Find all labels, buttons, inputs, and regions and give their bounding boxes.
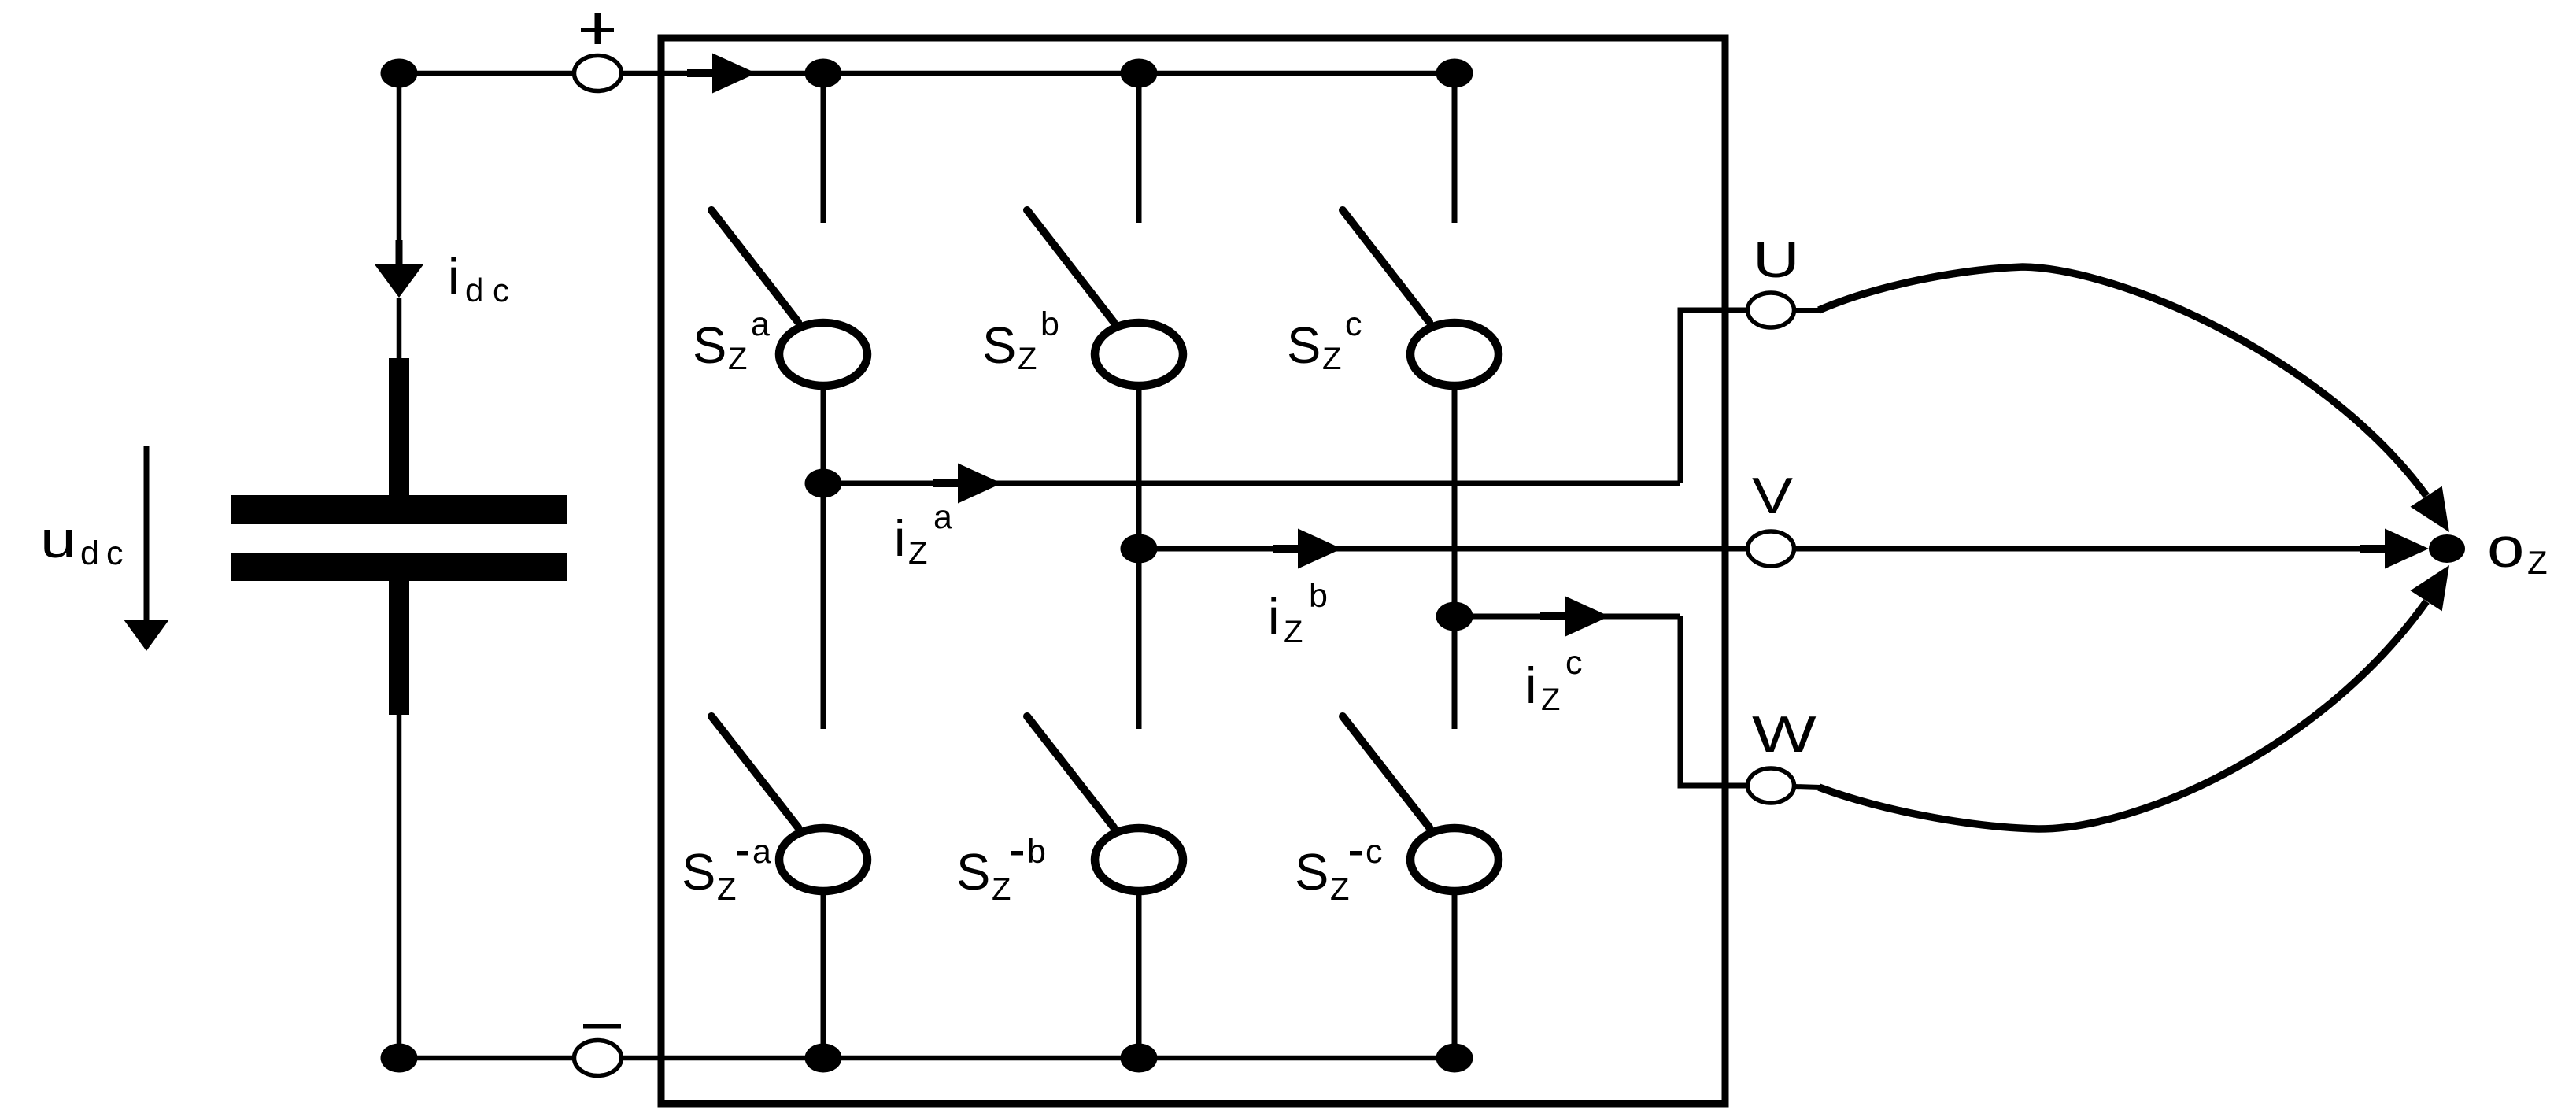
switch S_Z^-c lever <box>1343 716 1429 827</box>
svg-text:c: c <box>1565 644 1583 682</box>
svg-text:S: S <box>693 316 726 374</box>
arrowhead W curve <box>2411 565 2450 611</box>
arrow on top rail <box>687 69 717 77</box>
svg-text:Z: Z <box>728 342 747 376</box>
wire: capacitor to bottom rail <box>397 712 402 1058</box>
svg-text:S: S <box>682 843 715 901</box>
arrow u_dc direction <box>144 446 150 622</box>
svg-text:c: c <box>106 534 124 572</box>
svg-text:i: i <box>1268 588 1279 645</box>
svg-text:Z: Z <box>1330 872 1349 907</box>
wire: phase a top stub <box>821 73 826 223</box>
wire: arrow to capacitor <box>397 298 402 361</box>
wire: phase a middle column <box>821 386 826 729</box>
svg-text:i: i <box>448 248 459 305</box>
terminal W <box>1748 768 1794 803</box>
svg-text:Z: Z <box>1018 342 1037 376</box>
phase a top node <box>805 59 842 88</box>
terminal U <box>1748 293 1794 327</box>
svg-text:V: V <box>1752 468 1793 524</box>
arrow i_Z^c <box>1540 612 1570 620</box>
phase c bottom node <box>1436 1044 1473 1073</box>
svg-text:Z: Z <box>992 872 1011 907</box>
inverter box outline <box>661 38 1725 1104</box>
phase a bottom node <box>805 1044 842 1073</box>
svg-text:U: U <box>1753 231 1800 288</box>
arrowhead U curve <box>2411 486 2450 532</box>
switch S_Z^c lever <box>1343 210 1429 322</box>
switch S_Z^-c contact <box>1410 828 1499 891</box>
arrow i_Z^a <box>933 479 963 487</box>
wire: phase c bottom stub <box>1452 891 1458 1058</box>
svg-text:b: b <box>1027 833 1046 871</box>
switch S_Z^a lever <box>711 210 798 322</box>
node: DC+ left junction <box>381 59 418 88</box>
wire: V load line <box>1794 546 2377 552</box>
switch S_Z^-b contact <box>1095 828 1183 891</box>
svg-text:i: i <box>1525 657 1536 714</box>
terminal V <box>1748 531 1794 566</box>
svg-text:S: S <box>982 316 1016 374</box>
wire: phase b to V terminal <box>1139 546 1748 552</box>
arrow i_dc <box>396 240 403 267</box>
wire: phase b middle column <box>1136 386 1142 729</box>
switch S_Z^b contact <box>1095 323 1183 386</box>
svg-text:c: c <box>1345 305 1362 343</box>
wire: top DC+ rail <box>399 71 1454 76</box>
svg-text:c: c <box>493 272 509 309</box>
node o_Z <box>2429 534 2465 563</box>
svg-text:S: S <box>1287 316 1321 374</box>
node: phase b output junction <box>1121 534 1158 564</box>
phase c top node <box>1436 59 1473 88</box>
wire: phase c middle column <box>1452 386 1458 729</box>
wire: left branch top <box>397 73 402 244</box>
switch S_Z^b lever <box>1027 210 1114 322</box>
arrow i_Z^b <box>1273 545 1303 553</box>
node: DC- left junction <box>381 1044 418 1073</box>
terminal - (open circle) <box>575 1041 622 1076</box>
node: phase c output junction <box>1436 602 1473 631</box>
capacitor C_dc bottom plate <box>231 553 567 581</box>
terminal + (open circle) <box>575 56 622 91</box>
capacitor C_dc top plate <box>231 495 567 524</box>
phase b bottom node <box>1121 1044 1158 1073</box>
svg-text:S: S <box>956 843 990 901</box>
svg-text:Z: Z <box>1284 615 1303 649</box>
svg-text:i: i <box>894 509 905 567</box>
svg-text:o: o <box>2487 516 2524 579</box>
label - <box>583 1024 621 1029</box>
wire: bottom DC- rail <box>399 1056 1454 1061</box>
capacitor C_dc bottom lead <box>389 581 409 715</box>
arrow V line <box>2360 545 2389 553</box>
wire: phase c top stub <box>1452 73 1458 223</box>
svg-text:Z: Z <box>908 536 927 571</box>
svg-text:Z: Z <box>2527 544 2548 581</box>
capacitor C_dc top lead <box>389 358 409 497</box>
label + <box>581 28 614 33</box>
node: phase a output junction <box>805 469 842 498</box>
svg-text:a: a <box>751 305 770 343</box>
svg-text:Z: Z <box>1541 682 1560 717</box>
wire: phase c to W terminal <box>1454 614 1680 620</box>
svg-text:a: a <box>752 833 771 871</box>
switch S_Z^a contact <box>779 323 867 386</box>
phase b top node <box>1121 59 1158 88</box>
svg-text:d: d <box>80 534 99 572</box>
svg-text:c: c <box>1366 833 1383 871</box>
svg-text:b: b <box>1309 577 1328 615</box>
switch S_Z^c contact <box>1410 323 1499 386</box>
svg-text:u: u <box>40 510 76 568</box>
switch S_Z^-a contact <box>779 828 867 891</box>
svg-text:a: a <box>933 498 952 536</box>
wire: U load curve <box>1794 308 1820 313</box>
switch S_Z^-a lever <box>711 716 798 827</box>
svg-text:S: S <box>1295 843 1329 901</box>
switch S_Z^-b lever <box>1027 716 1114 827</box>
svg-text:W: W <box>1752 706 1817 763</box>
wire: phase a bottom stub <box>821 891 826 1058</box>
wire: phase b top stub <box>1136 73 1142 223</box>
wire: phase b bottom stub <box>1136 891 1142 1058</box>
svg-text:b: b <box>1040 305 1059 343</box>
wire: phase a to U terminal <box>823 481 1680 486</box>
svg-text:Z: Z <box>717 872 736 907</box>
wire: W load curve <box>1794 786 1820 787</box>
svg-text:Z: Z <box>1322 342 1341 376</box>
svg-text:d: d <box>465 272 483 309</box>
